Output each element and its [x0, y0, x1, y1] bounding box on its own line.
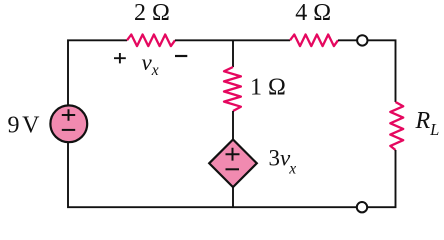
plus sign inside 9V source — [62, 109, 75, 121]
svg-text:4 Ω: 4 Ω — [295, 0, 331, 26]
wire: RL bottom down right rail to bottom-right corner — [367, 150, 395, 207]
wire: top node junction down to 1-ohm resistor — [232, 40, 234, 67]
dependent source 3vx (diamond) — [209, 140, 257, 188]
label minus of vx — [175, 55, 187, 57]
resistor 4 ohm — [290, 35, 338, 47]
wire: from 2-ohm across top node to 4-ohm — [175, 39, 290, 41]
wire: bottom rail from terminal b to left rail — [68, 142, 357, 207]
wire: terminal a to top-right corner and down right rail — [368, 40, 396, 102]
svg-text:9 V: 9 V — [8, 112, 41, 138]
wire: dependent source down to bottom rail — [232, 187, 234, 207]
resistor 2 ohm — [127, 35, 175, 47]
terminal a (open circle) — [357, 35, 367, 45]
voltage source 9V (independent, circle) — [50, 105, 87, 142]
plus sign inside dependent source — [226, 148, 240, 161]
terminal b (open circle) — [357, 202, 367, 212]
svg-text:1 Ω: 1 Ω — [250, 75, 286, 101]
label plus of vx — [114, 53, 126, 63]
svg-text:3vx: 3vx — [269, 146, 297, 178]
resistor RL — [390, 102, 403, 150]
wire: 1-ohm down to dependent source — [232, 111, 234, 140]
svg-text:2 Ω: 2 Ω — [134, 0, 170, 26]
svg-text:RL: RL — [415, 108, 440, 139]
wire: top-left from left rail up and to 2-ohm resistor — [68, 40, 127, 105]
minus sign inside 9V source — [62, 129, 75, 131]
wire: 4-ohm to terminal a — [338, 39, 357, 41]
resistor 1 ohm — [224, 67, 241, 111]
minus sign inside dependent source — [226, 168, 240, 170]
svg-text:vx: vx — [142, 50, 159, 79]
